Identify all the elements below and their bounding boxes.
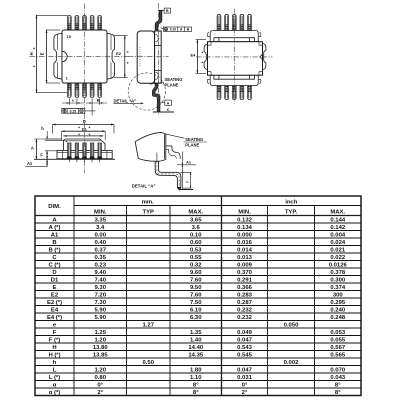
bottom view: right edge bumps and notch <box>263 43 266 69</box>
bottom view: bottom plate inner line with hooks <box>214 75 255 79</box>
front view: base strip <box>57 150 112 158</box>
svg-text:PLANE: PLANE <box>185 143 199 148</box>
detail A: lead cross-section step <box>166 145 172 147</box>
side view: lower lead curl inside plate <box>155 72 159 80</box>
bottom view: top plate inner line with hooks <box>214 38 255 42</box>
svg-text:*: * <box>65 139 67 144</box>
svg-text:9.40: 9.40 <box>95 270 107 276</box>
svg-text:F: F <box>40 153 43 158</box>
svg-text:E2: E2 <box>116 51 122 56</box>
side view: top lead <box>157 10 161 31</box>
svg-text:A1: A1 <box>186 160 191 164</box>
top view: left slug wing <box>54 33 62 79</box>
svg-text:0.374: 0.374 <box>330 285 345 291</box>
svg-text:A: A <box>52 217 57 223</box>
side view: lead frame plate <box>155 31 162 83</box>
svg-text:E2 (*): E2 (*) <box>47 300 62 306</box>
svg-text:D: D <box>52 270 56 276</box>
dimension table <box>35 196 361 396</box>
svg-text:α (*): α (*) <box>49 390 61 396</box>
side view: vertical centerline <box>158 3 160 116</box>
detail A: body corner blob <box>135 132 166 161</box>
datum A box <box>161 102 165 104</box>
svg-text:0.55: 0.55 <box>190 255 202 261</box>
side view: hidden slug dotted line <box>139 47 141 66</box>
svg-text:3.6: 3.6 <box>192 225 201 231</box>
svg-text:5.90: 5.90 <box>95 315 107 321</box>
svg-text:E2: E2 <box>51 292 59 298</box>
svg-text:0.142: 0.142 <box>330 225 345 231</box>
svg-text:13.85: 13.85 <box>93 352 108 358</box>
bottom view: main body <box>208 42 263 75</box>
svg-text:0.370: 0.370 <box>237 270 252 276</box>
svg-text:0.25: 0.25 <box>70 109 77 113</box>
svg-text:1.20: 1.20 <box>95 337 107 343</box>
dimension E4: extension lines <box>196 39 207 41</box>
svg-text:1.25: 1.25 <box>95 330 107 336</box>
dimension D1 starred: dimension line <box>64 135 104 137</box>
bottom view: center notch <box>260 54 263 59</box>
svg-text:F: F <box>53 330 57 336</box>
svg-text:H: H <box>52 345 56 351</box>
svg-text:TYP: TYP <box>143 209 155 215</box>
svg-text:6.10: 6.10 <box>190 307 202 313</box>
dimension L (detail): bracket and label <box>180 171 191 173</box>
svg-text:DIM.: DIM. <box>48 204 61 210</box>
svg-text:300: 300 <box>333 292 344 298</box>
top view: package body <box>62 30 107 83</box>
svg-text:*: * <box>78 126 80 131</box>
svg-text:H (*): H (*) <box>48 352 60 358</box>
svg-text:6.30: 6.30 <box>190 315 202 321</box>
svg-text:0.00: 0.00 <box>95 232 107 238</box>
svg-text:e: e <box>72 99 74 103</box>
svg-text:0.031: 0.031 <box>237 375 252 381</box>
dimension B: extension lines <box>91 99 93 105</box>
svg-text:B: B <box>52 240 56 246</box>
svg-text:B: B <box>166 9 169 13</box>
svg-text:8°: 8° <box>193 390 199 396</box>
svg-text:C: C <box>52 255 57 261</box>
svg-text:*: * <box>89 126 91 131</box>
svg-text:1.35: 1.35 <box>190 330 202 336</box>
dimension E: dimension line <box>46 30 48 83</box>
svg-text:0.043: 0.043 <box>330 375 345 381</box>
svg-text:inch: inch <box>285 199 298 205</box>
dimension E2: extension lines <box>114 35 128 37</box>
svg-text:SEATING: SEATING <box>185 137 203 142</box>
svg-text:h: h <box>41 126 44 131</box>
svg-text:F (*): F (*) <box>49 337 60 343</box>
top view: slug half-circle index <box>62 51 67 61</box>
svg-text:0.565: 0.565 <box>330 352 345 358</box>
dimension D1: extension lines <box>61 131 63 140</box>
svg-text:PLANE: PLANE <box>165 83 179 88</box>
dimension D1: dimension line <box>62 130 106 132</box>
svg-text:MAX.: MAX. <box>188 209 203 215</box>
svg-text:0.016: 0.016 <box>237 240 252 246</box>
svg-text:1.20: 1.20 <box>95 367 107 373</box>
svg-text:0.283: 0.283 <box>237 292 252 298</box>
detail A dashed circle <box>128 73 165 110</box>
side view: seating plane line <box>153 111 174 113</box>
svg-text:0.055: 0.055 <box>330 337 345 343</box>
svg-text:7.30: 7.30 <box>95 300 107 306</box>
svg-text:MAX.: MAX. <box>330 209 345 215</box>
svg-text:8°: 8° <box>335 390 341 396</box>
svg-text:0.132: 0.132 <box>237 217 252 223</box>
svg-text:*: * <box>127 61 129 66</box>
svg-text:2°: 2° <box>242 390 248 396</box>
bottom view: vertical centerline <box>233 9 235 104</box>
dimension H: dimension line <box>36 15 38 92</box>
svg-text:0.23: 0.23 <box>95 262 107 268</box>
detail A: lead centerline dashed <box>157 161 179 191</box>
front view: seating base line <box>34 158 115 160</box>
svg-text:3.4: 3.4 <box>96 225 105 231</box>
dimension D: dimension line <box>53 124 114 126</box>
svg-text:0.32: 0.32 <box>190 262 202 268</box>
top view: vertical centerline <box>84 4 86 109</box>
svg-text:*: * <box>89 133 91 138</box>
dimension e: extension lines <box>68 99 70 105</box>
svg-text:0.378: 0.378 <box>330 270 345 276</box>
front view: chamfer inner line <box>63 140 100 142</box>
svg-text:1.80: 1.80 <box>190 367 202 373</box>
svg-text:0.004: 0.004 <box>330 232 345 238</box>
svg-text:D1: D1 <box>51 277 59 283</box>
svg-text:*: * <box>33 46 35 51</box>
svg-text:0.050: 0.050 <box>284 322 299 328</box>
svg-text:*: * <box>201 61 203 66</box>
svg-text:SEATING: SEATING <box>165 77 183 82</box>
bottom view: top slug plate <box>210 31 258 42</box>
svg-text:*: * <box>127 50 129 55</box>
svg-text:8°: 8° <box>335 382 341 388</box>
dimension e: dimension line with arrows <box>62 102 84 104</box>
svg-text:α: α <box>53 382 57 388</box>
svg-text:3.35: 3.35 <box>95 217 107 223</box>
svg-text:E: E <box>53 285 57 291</box>
svg-text:*: * <box>78 133 80 138</box>
svg-text:*: * <box>201 50 203 55</box>
svg-text:1.27: 1.27 <box>143 322 155 328</box>
svg-text:DETAIL “A”: DETAIL “A” <box>114 99 137 104</box>
svg-text:C: C <box>167 107 170 112</box>
svg-text:2°: 2° <box>97 390 103 396</box>
svg-text:MIN.: MIN. <box>94 209 107 215</box>
svg-text:mm.: mm. <box>142 199 154 205</box>
feature control frame 0.10 A B <box>161 27 192 32</box>
svg-text:0.014: 0.014 <box>237 247 252 253</box>
bottom view: horizontal centerline <box>196 56 273 58</box>
svg-text:A1: A1 <box>27 161 33 166</box>
svg-text:14.35: 14.35 <box>188 352 203 358</box>
svg-text:B (*): B (*) <box>48 247 60 253</box>
svg-text:7.50: 7.50 <box>190 300 202 306</box>
svg-text:0.049: 0.049 <box>237 330 252 336</box>
svg-text:9.30: 9.30 <box>95 285 107 291</box>
svg-text:0.009: 0.009 <box>237 262 252 268</box>
bottom view: bottom slug plate <box>210 75 258 85</box>
dimension E4: dimension line <box>196 40 198 74</box>
svg-text:0.070: 0.070 <box>330 367 345 373</box>
svg-text:0.50: 0.50 <box>143 360 155 366</box>
dimension D: extension lines <box>52 125 54 134</box>
svg-text:L: L <box>186 180 189 184</box>
svg-text:MIN.: MIN. <box>238 209 251 215</box>
svg-text:13.80: 13.80 <box>93 345 108 351</box>
svg-text:*: * <box>33 64 35 69</box>
detail A: seating plane line <box>179 189 194 191</box>
svg-text:8°: 8° <box>193 382 199 388</box>
svg-text:0.10: 0.10 <box>190 232 202 238</box>
dimension E: extension lines <box>46 29 60 31</box>
svg-text:B: B <box>97 98 100 102</box>
svg-text:h: h <box>53 360 57 366</box>
svg-text:H: H <box>29 52 34 55</box>
svg-text:A1: A1 <box>51 232 59 238</box>
dimension A: dimension line <box>35 139 37 159</box>
dimension H: extension lines <box>36 14 68 16</box>
svg-text:E: E <box>40 52 45 55</box>
bottom view: corner notches <box>208 42 263 75</box>
svg-text:C (*): C (*) <box>48 262 60 268</box>
svg-text:1.40: 1.40 <box>190 337 202 343</box>
dimension F: dimension line <box>46 151 48 160</box>
svg-text:0.291: 0.291 <box>237 277 252 283</box>
front view: leads through base <box>68 143 71 159</box>
svg-text:0.366: 0.366 <box>237 285 252 291</box>
svg-text:0.002: 0.002 <box>284 360 299 366</box>
top view: right slug wing <box>107 33 115 79</box>
svg-text:0.053: 0.053 <box>330 330 345 336</box>
svg-text:E4: E4 <box>51 307 59 313</box>
svg-text:0.047: 0.047 <box>237 337 252 343</box>
top view: top lead row <box>67 15 71 30</box>
svg-text:0.567: 0.567 <box>330 345 345 351</box>
svg-text:0.024: 0.024 <box>330 240 345 246</box>
svg-text:5.90: 5.90 <box>95 307 107 313</box>
svg-text:0.013: 0.013 <box>237 255 252 261</box>
dimension F: extension line <box>45 150 58 152</box>
svg-text:0.543: 0.543 <box>237 345 252 351</box>
svg-text:0°: 0° <box>242 382 248 388</box>
svg-text:0.144: 0.144 <box>330 217 345 223</box>
svg-text:A (*): A (*) <box>49 225 61 231</box>
svg-text:L (*): L (*) <box>49 375 60 381</box>
svg-text:9.60: 9.60 <box>190 270 202 276</box>
svg-text:0.53: 0.53 <box>190 247 202 253</box>
front view: vertical centerline <box>84 114 86 174</box>
side view: upper lead curl inside plate <box>155 34 159 42</box>
svg-text:7.60: 7.60 <box>190 277 202 283</box>
dimension E2: dimension line <box>124 36 126 78</box>
svg-text:0.022: 0.022 <box>330 255 345 261</box>
top view: horizontal centerline <box>30 56 129 58</box>
svg-text:0.60: 0.60 <box>190 240 202 246</box>
svg-text:0.248: 0.248 <box>330 315 345 321</box>
svg-text:A: A <box>31 145 34 150</box>
svg-text:7.60: 7.60 <box>190 292 202 298</box>
svg-text:L: L <box>53 367 57 373</box>
svg-text:E4: E4 <box>191 52 197 57</box>
svg-text:0.000: 0.000 <box>237 232 252 238</box>
svg-text:0.295: 0.295 <box>330 300 345 306</box>
svg-text:3.65: 3.65 <box>190 217 202 223</box>
svg-text:0.287: 0.287 <box>237 300 252 306</box>
top view: bottom lead row <box>67 83 71 98</box>
svg-text:DETAIL “A”: DETAIL “A” <box>132 183 156 188</box>
svg-text:0°: 0° <box>97 382 103 388</box>
svg-text:10: 10 <box>66 34 71 39</box>
position tolerance feature control frame 0.25 M <box>62 105 96 116</box>
svg-text:0.37: 0.37 <box>95 247 107 253</box>
svg-text:0.047: 0.047 <box>237 367 252 373</box>
svg-text:14.40: 14.40 <box>188 345 203 351</box>
svg-text:0.80: 0.80 <box>95 375 107 381</box>
svg-text:0.0126: 0.0126 <box>329 262 348 268</box>
detail A: gull-wing lead <box>159 161 181 187</box>
side view: body profile <box>137 31 154 83</box>
datum target B box <box>162 10 164 12</box>
svg-text:0.300: 0.300 <box>330 277 345 283</box>
svg-text:0.134: 0.134 <box>237 225 252 231</box>
bottom view: left wing bumps <box>204 44 207 69</box>
svg-text:1.10: 1.10 <box>190 375 202 381</box>
svg-text:A: A <box>167 101 170 105</box>
svg-text:E4 (*): E4 (*) <box>47 315 62 321</box>
svg-text:7.40: 7.40 <box>95 277 107 283</box>
svg-text:0.240: 0.240 <box>330 307 345 313</box>
bottom view: bottom lead row <box>217 85 221 100</box>
svg-text:0.021: 0.021 <box>330 247 345 253</box>
svg-text:0.232: 0.232 <box>237 307 252 313</box>
svg-text:0.545: 0.545 <box>237 352 252 358</box>
front view: body outline with chamfer <box>63 139 105 150</box>
svg-text:0.10: 0.10 <box>170 28 177 32</box>
svg-text:9.50: 9.50 <box>190 285 202 291</box>
svg-text:0.40: 0.40 <box>95 240 107 246</box>
dimension A: extension line <box>34 138 62 140</box>
svg-text:TYP.: TYP. <box>285 209 298 215</box>
detail A: lead frame inner edge <box>163 134 165 158</box>
svg-text:0.232: 0.232 <box>237 315 252 321</box>
svg-text:0.35: 0.35 <box>95 255 107 261</box>
side view: horizontal centerline <box>128 56 169 58</box>
svg-text:7.20: 7.20 <box>95 292 107 298</box>
bottom view: top lead row <box>217 14 221 31</box>
dimension B: dimension line with arrows <box>86 102 107 104</box>
side view: bottom lead <box>154 83 159 112</box>
